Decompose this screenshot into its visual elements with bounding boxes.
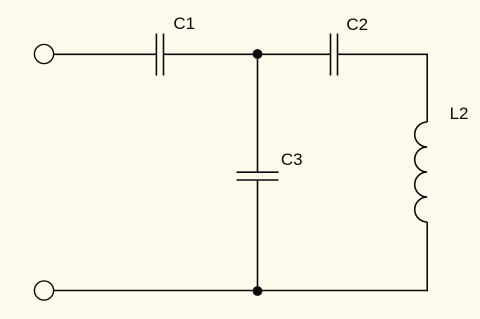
capacitor C1	[156, 34, 163, 76]
wire node A to C2	[258, 53, 331, 55]
inductor L2	[415, 122, 428, 222]
bottom junction dot	[253, 286, 263, 296]
wire right vertical bottom	[426, 222, 428, 291]
terminal IN top	[34, 44, 53, 63]
capacitor C2	[331, 34, 338, 76]
wire top-left	[54, 53, 156, 55]
wire node A down to C3	[257, 54, 259, 172]
wire C3 to bottom node	[257, 180, 259, 291]
capacitor C3	[237, 172, 279, 180]
svg-text:C3: C3	[281, 150, 303, 169]
wire C2 to corner	[338, 53, 427, 55]
node A junction dot	[253, 49, 263, 59]
wire bottom	[54, 290, 427, 292]
wire right vertical top	[426, 54, 428, 123]
wire C1 to node A	[164, 53, 258, 55]
svg-text:C2: C2	[346, 15, 368, 34]
svg-text:C1: C1	[173, 14, 195, 33]
svg-text:L2: L2	[450, 104, 469, 123]
terminal IN bottom	[34, 281, 53, 300]
